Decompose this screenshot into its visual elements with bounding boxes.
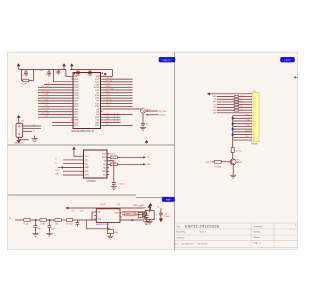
svg-text:3V3: 3V3 (143, 207, 146, 209)
power flag VCC USB (17, 115, 21, 123)
wire U1 EN to rail (66, 70, 71, 77)
connector P3 header yellow (252, 91, 259, 142)
wire P3 row with resistor (214, 104, 252, 107)
svg-text:TFT_LED: TFT_LED (159, 111, 167, 113)
svg-text:Model No.: Model No. (177, 232, 187, 234)
svg-text:Dsn 2022.5.19: Dsn 2022.5.19 (182, 243, 194, 245)
svg-text:18: 18 (253, 140, 255, 142)
wire U1 left pin row (38, 100, 71, 102)
fuse F1 (23, 219, 30, 226)
wire P3 row from bus (232, 123, 252, 125)
svg-text:IO2: IO2 (106, 124, 109, 126)
wire U1 left pin row (38, 102, 71, 104)
svg-text:CLK: CLK (74, 122, 79, 124)
label U3 caption (96, 223, 110, 226)
svg-text:D+: D+ (33, 124, 35, 126)
wire U1 left pin row (38, 89, 71, 91)
svg-text:AMS1117-3.3: AMS1117-3.3 (96, 223, 110, 226)
svg-text:IO0: IO0 (103, 175, 106, 177)
ground GND C13 (46, 233, 52, 236)
wire U1 left pin row (38, 86, 71, 88)
svg-text:TFT_IO36: TFT_IO36 (42, 86, 50, 88)
svg-text:UD-: UD- (85, 163, 89, 165)
wire P3 row from bus (232, 134, 252, 136)
wire USB D- (23, 129, 41, 133)
wire U1 right pin row (102, 83, 132, 85)
net label 5V blue (22, 121, 25, 123)
net label square 3V3 right (104, 73, 106, 75)
net label 3V3 blue U3 (143, 207, 146, 209)
power flag VCC U2 (72, 147, 76, 157)
svg-text:GND: GND (95, 122, 100, 124)
sheet divider vertical (174, 52, 176, 250)
power arrow small right (145, 140, 149, 144)
wire U1 right pin row (102, 105, 132, 107)
svg-text:RST: RST (240, 102, 243, 104)
capacitor C10 (141, 122, 149, 127)
wire P3 row from bus (232, 128, 252, 130)
wire P3 row from bus (233, 120, 252, 122)
svg-text:TP_15: TP_15 (114, 116, 119, 118)
sheet port box PWR (162, 197, 175, 202)
wire power rail A (19, 69, 67, 71)
wire power rail B (70, 69, 113, 71)
diode D1 (66, 219, 73, 226)
wire U3 in (92, 212, 94, 220)
svg-text:XT: XT (146, 214, 148, 216)
svg-text:R22 10K: R22 10K (215, 166, 222, 168)
transistor Q1 (230, 159, 242, 165)
resistor R22 (214, 160, 230, 168)
inductor L1 (40, 219, 46, 226)
svg-text:P/N Size: P/N Size (177, 237, 186, 239)
svg-text:TP_16: TP_16 (114, 119, 119, 121)
wire Q1 emitter (232, 165, 234, 175)
net label CTL (206, 162, 212, 164)
ic U4 body (143, 211, 155, 220)
svg-text:ESP32-WROOM-32: ESP32-WROOM-32 (72, 130, 95, 133)
sheet divider horizontal 1 (8, 144, 175, 146)
title text row3 (177, 237, 186, 239)
wire U2 GND (63, 167, 82, 169)
wire R21 to Q1 (232, 153, 234, 159)
svg-text:1:1: 1:1 (175, 243, 178, 245)
wire P3 row 7 (213, 113, 252, 115)
wire U1 right pin row 18 (102, 124, 132, 126)
svg-text:VDD33: VDD33 (100, 204, 106, 206)
wire P3 row with resistor (212, 96, 252, 99)
svg-text:11: 11 (253, 121, 255, 123)
svg-text:CMD: CMD (74, 120, 79, 122)
wire U2 VCC (74, 155, 82, 157)
wire U1 right pin row (102, 88, 132, 91)
label U2 caption (87, 180, 96, 183)
svg-text:C2 104: C2 104 (87, 74, 93, 76)
resistor R5 (109, 161, 143, 166)
svg-text:3V3: 3V3 (39, 70, 42, 72)
capacitor C14 (71, 210, 83, 226)
svg-text:TFT_IO39: TFT_IO39 (42, 91, 50, 93)
svg-text:TP_17: TP_17 (114, 121, 119, 123)
ground GND D2 (107, 234, 113, 239)
svg-text:TFT_CS: TFT_CS (106, 78, 113, 80)
svg-text:IO16: IO16 (106, 113, 110, 115)
resistor R1 loop (21, 70, 33, 86)
wire P3 row with resistor (213, 109, 252, 112)
svg-text:13: 13 (253, 126, 255, 128)
svg-text:C5 104: C5 104 (45, 75, 51, 77)
svg-text:2.8TFT: 2.8TFT (284, 60, 291, 62)
svg-text:TFT_RS: TFT_RS (106, 81, 113, 83)
wire chain 1 (30, 219, 40, 221)
net arrow AMS in (65, 207, 143, 210)
ground GND C12 (32, 233, 38, 236)
svg-text:TFT-28: TFT-28 (251, 144, 257, 146)
capacitor C5 (45, 70, 51, 77)
transistor Q2 (141, 109, 151, 114)
power flag VCC3 (70, 63, 74, 69)
svg-text:TFT_DC: TFT_DC (106, 102, 113, 104)
sheet port box USB-TTL (159, 57, 175, 62)
net stub right edge (295, 76, 298, 78)
sheet port box TFT (281, 57, 295, 62)
wire U1 right pin row (102, 121, 120, 123)
svg-text:TFT_IO14: TFT_IO14 (42, 113, 50, 115)
power flag VCC1 (17, 63, 21, 69)
ground GND Q1 (230, 175, 236, 178)
svg-text:LCD_BL: LCD_BL (159, 115, 166, 117)
svg-text:Part No.: Part No. (254, 231, 262, 234)
svg-text:IO18: IO18 (106, 97, 110, 99)
wire U1 left pin row (38, 113, 71, 115)
svg-text:Sheets: Sheets (254, 236, 260, 239)
capacitor C6 (55, 70, 60, 75)
svg-text:104: 104 (146, 123, 149, 125)
wire USB shield (19, 137, 29, 140)
svg-text:10: 10 (253, 118, 255, 120)
connector USB1 (12, 123, 22, 137)
svg-text:16: 16 (253, 134, 255, 136)
svg-text:3V3: 3V3 (139, 206, 142, 208)
svg-text:IO19: IO19 (106, 121, 110, 123)
wire U1 left pin row (38, 116, 71, 118)
svg-text:1: 1 (261, 246, 262, 248)
svg-text:PWR: PWR (166, 200, 171, 202)
wire U1 left pin row (38, 105, 71, 107)
label U1 caption (72, 130, 95, 133)
sheet divider horizontal 2 (8, 195, 163, 198)
svg-text:Chk 22.5.19: Chk 22.5.19 (198, 243, 208, 245)
svg-text:C11: C11 (164, 213, 167, 215)
net labels on 3V3 rail (100, 204, 144, 207)
wire P3 row from bus (233, 139, 252, 141)
wire P3 row with resistor (214, 98, 252, 101)
wire chain 3 (61, 219, 96, 221)
wire USB D+ (23, 124, 41, 126)
ic U3 AMS1117 (94, 209, 122, 223)
ground GND C9 (111, 187, 117, 190)
wire U2 DTR (55, 174, 81, 176)
wire U1 left pin row 18 (52, 124, 71, 126)
svg-text:SD_CS: SD_CS (245, 131, 251, 133)
svg-text:IO27: IO27 (45, 110, 49, 112)
svg-text:Company: Company (254, 226, 263, 228)
svg-text:USB-TTL: USB-TTL (163, 60, 173, 62)
junction dot U3 out (120, 219, 144, 221)
ground GND Q2 (140, 127, 146, 130)
svg-text:SS54: SS54 (114, 232, 118, 234)
svg-text:R4 1K5: R4 1K5 (110, 154, 116, 156)
wire U1 left pin row 17 (52, 122, 71, 124)
capacitor C9 (112, 181, 124, 187)
svg-text:Item: Item (177, 225, 181, 228)
wire net LCD_BL (146, 114, 166, 117)
wire P3 row with resistor (213, 101, 252, 104)
svg-text:VCC: VCC (85, 156, 90, 158)
wire U1 left pin row (38, 97, 71, 99)
svg-text:T_DO: T_DO (245, 125, 250, 127)
title text row2 (177, 232, 207, 234)
title block grid (175, 223, 298, 248)
net label 3V3 mini (139, 206, 142, 208)
wire U1 right pin row (102, 94, 132, 96)
net flag TXD (143, 156, 151, 159)
svg-text:TFT_IO35: TFT_IO35 (42, 97, 50, 99)
wire U1 right pin row (102, 81, 132, 83)
wire chain 2 (46, 219, 55, 221)
power flag 3V3 out (148, 205, 152, 212)
bead FB1 (55, 219, 61, 226)
svg-text:C6: C6 (55, 72, 57, 74)
svg-text:0R5: 0R5 (126, 214, 129, 216)
capacitor C12 (34, 220, 41, 233)
svg-text:L1 2A2: L1 2A2 (40, 222, 45, 225)
svg-text:C16: C16 (138, 218, 141, 220)
svg-text:IO25: IO25 (45, 105, 49, 107)
wire U1 right pin row (102, 86, 132, 88)
capacitor C13 (48, 220, 55, 233)
svg-text:IO12: IO12 (45, 116, 49, 118)
wire P3 row from bus (233, 125, 252, 127)
svg-text:10uF: 10uF (51, 228, 55, 230)
svg-text:47uF: 47uF (37, 228, 41, 230)
power flag VCC2 (62, 63, 66, 69)
svg-text:TXD: TXD (102, 154, 106, 156)
net arrow left U2 (58, 166, 63, 169)
wire net TFT_LED (146, 110, 167, 113)
wire USB VBUS (23, 130, 32, 132)
svg-text:IO32: IO32 (45, 100, 49, 102)
wire U1 right pin row (102, 97, 132, 99)
svg-text:VOUT: VOUT (114, 213, 119, 215)
wire U1 right pin row 13 (102, 114, 132, 116)
wire U1 right pin row (102, 78, 132, 80)
label P3 caption (251, 144, 257, 146)
svg-text:IO19: IO19 (106, 94, 110, 96)
wire U1 right pin row (102, 116, 120, 118)
wire U1 right pin row (102, 119, 120, 121)
wire U1 right pin row (102, 91, 132, 93)
svg-text:SVN: SVN (74, 82, 79, 84)
pin numbers P3 (253, 93, 255, 141)
title text product name (177, 225, 220, 229)
svg-text:ESP32-2432S028: ESP32-2432S028 (185, 225, 219, 229)
svg-text:FB1: FB1 (55, 223, 58, 225)
wire U1 to Q2 base (102, 108, 141, 110)
capacitor C2 (87, 70, 93, 77)
svg-text:USB MICRO: USB MICRO (14, 143, 24, 145)
svg-text:RST: RST (213, 102, 216, 104)
wire P3 row from bus (232, 117, 252, 119)
svg-text:R21 100: R21 100 (235, 151, 241, 153)
bus vertical P3 (232, 116, 234, 148)
ground GND C16 (143, 222, 149, 225)
svg-text:15: 15 (253, 131, 255, 133)
diode D2 (107, 230, 118, 234)
wire U2 UD- (55, 162, 81, 164)
svg-text:RXD: RXD (102, 157, 107, 159)
resistor R4 (109, 154, 143, 159)
junction dot chain A (35, 219, 37, 221)
svg-text:LED_K: LED_K (206, 162, 212, 164)
svg-text:IO34: IO34 (45, 94, 49, 96)
svg-text:C9 104: C9 104 (119, 184, 125, 186)
svg-text:CH340C: CH340C (87, 180, 96, 183)
svg-text:TFT_IO33: TFT_IO33 (42, 102, 50, 104)
title text corner (295, 224, 297, 227)
capacitor C16 (138, 212, 149, 221)
wire P3 row with resistor (213, 106, 252, 109)
ground GND USB (17, 140, 21, 143)
title text row4 (175, 243, 207, 245)
svg-text:TP_CS: TP_CS (106, 100, 112, 102)
svg-text:S8050: S8050 (237, 162, 242, 164)
svg-text:100uF: 100uF (164, 216, 169, 218)
svg-text:SVP: SVP (74, 79, 79, 81)
svg-text:IO18: IO18 (106, 119, 110, 121)
wire U1 right pin row (102, 113, 120, 115)
wire U1 pin3 net (53, 70, 71, 82)
wire U1 right pin row (102, 100, 132, 102)
label USB1 (14, 143, 24, 145)
svg-text:TFT_SDA: TFT_SDA (106, 88, 114, 91)
net flag RXD (143, 163, 151, 166)
svg-text:P3: P3 (253, 91, 255, 93)
wire U1 left pin row 2 (44, 83, 71, 85)
wire U1 right pin row (102, 102, 132, 104)
svg-text:3V3: 3V3 (117, 204, 120, 206)
ground GND sheet1 (31, 136, 37, 142)
svg-text:C15: C15 (71, 210, 74, 212)
svg-text:D1 SS34: D1 SS34 (66, 223, 73, 225)
svg-text:10uF: 10uF (80, 210, 84, 212)
wire U2 V3 to C9 (109, 161, 114, 181)
title text right col (254, 226, 272, 248)
ic U1 ESP32-WROOM-32 (71, 73, 102, 129)
capacitor C4 (22, 70, 28, 77)
svg-text:DTR: DTR (85, 175, 90, 177)
junction mark U1 pin1 (102, 72, 104, 74)
wire U1 left pin row (38, 110, 71, 112)
ground GND U4 (147, 220, 153, 224)
svg-text:Ver 1.0: Ver 1.0 (200, 232, 207, 234)
svg-text:17: 17 (253, 137, 255, 139)
svg-text:R1 4R7: R1 4R7 (21, 84, 27, 86)
svg-text:Q1: Q1 (237, 159, 239, 161)
wire rail B drop to U1 pin (103, 70, 113, 77)
fuse F2 red (122, 211, 144, 219)
capacitor C1 (75, 70, 81, 77)
capacitor C11 polar (157, 207, 170, 223)
wire P3 row from bus (233, 114, 252, 116)
power flag VCC mini (149, 203, 153, 211)
net label 3V3 on rail (39, 70, 42, 72)
wire P3 row from bus (233, 136, 252, 138)
svg-text:C4 104: C4 104 (22, 75, 28, 77)
svg-text:14: 14 (253, 129, 255, 131)
wire U1 left pin row (38, 94, 71, 96)
crystal Y1 (138, 213, 142, 218)
svg-text:GND: GND (74, 109, 79, 111)
svg-text:D+: D+ (55, 159, 57, 161)
wire P3 row from bus (233, 131, 252, 133)
svg-text:TFT_IO26: TFT_IO26 (42, 108, 50, 110)
wire U2 UD+ (55, 159, 81, 161)
svg-text:GND: GND (85, 167, 90, 169)
junction dot chain B (49, 219, 51, 221)
svg-text:TXD0: TXD0 (94, 84, 100, 86)
wire P3 row GND arrow (207, 92, 252, 95)
resistor R21 (231, 148, 242, 153)
svg-text:TP_14: TP_14 (114, 113, 119, 115)
svg-text:V3: V3 (104, 161, 106, 163)
wire Q1 base (212, 161, 215, 163)
wire Q2 emitter (142, 113, 144, 122)
wire U1 left pin row (38, 91, 71, 93)
svg-text:RXD0: RXD0 (94, 87, 100, 89)
net label 5V input (9, 218, 24, 220)
wire U1 left pin row (38, 108, 71, 110)
wire U2 RTS (55, 170, 81, 172)
svg-text:IO17: IO17 (106, 116, 110, 118)
wire U3 feedback (86, 220, 110, 229)
ic U2 CH340C (82, 150, 110, 178)
svg-text:12: 12 (253, 123, 255, 125)
